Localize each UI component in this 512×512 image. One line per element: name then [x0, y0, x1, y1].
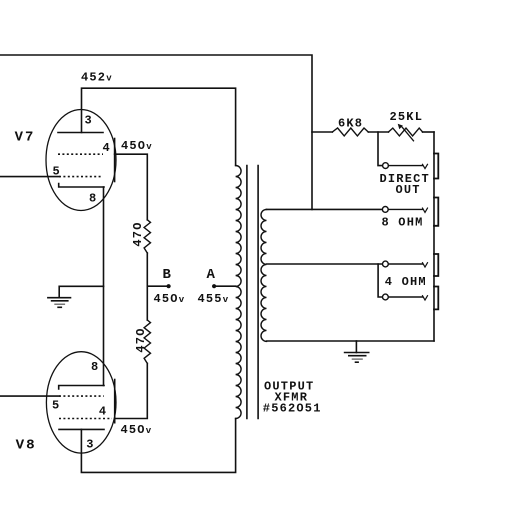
V8 screen grid pin 4 (dotted)	[59, 418, 112, 420]
label B	[163, 267, 173, 283]
svg-text:25KL: 25KL	[390, 110, 424, 124]
V8 cathode pin 8	[59, 386, 104, 390]
wire top supply rail	[0, 55, 312, 209]
wire pot to right rail	[423, 131, 434, 133]
V7 plate bar pin 3	[58, 132, 103, 134]
wire 4 OHM upper	[388, 263, 422, 265]
label 25KL	[390, 110, 424, 124]
wire lower 470 to V8 screen	[115, 363, 148, 418]
label V7	[15, 130, 36, 146]
V7 control grid pin 5 lead	[0, 176, 59, 178]
label OUTPUT XFMR #562051	[263, 380, 322, 416]
label 470 lower	[134, 327, 148, 352]
transformer T1 primary winding	[236, 166, 242, 419]
wire V7 screen 450v to resistor string	[115, 154, 148, 220]
ground right	[345, 353, 369, 356]
label A	[207, 267, 217, 283]
svg-text:V8: V8	[16, 438, 37, 454]
label 470 upper	[131, 221, 145, 246]
V7 pin 4 label	[103, 141, 111, 155]
wire 6K8 to pot junction	[368, 131, 388, 133]
label 455v node A	[198, 292, 229, 306]
svg-text:A: A	[207, 267, 217, 283]
tube V8 envelope	[46, 352, 116, 453]
wire cathode ground tap	[59, 286, 103, 297]
svg-text:47O: 47O	[131, 221, 145, 246]
tube V7 envelope	[46, 110, 116, 211]
resistor 470 upper	[144, 220, 150, 253]
svg-text:B: B	[163, 267, 173, 283]
wire right rail	[433, 132, 435, 341]
ground left	[48, 298, 71, 301]
V7 control grid (dotted)	[59, 176, 103, 178]
contact tick 8 OHM	[423, 208, 428, 212]
wire secondary bottom to right rail	[267, 340, 435, 342]
V7 pin 8 label	[89, 192, 97, 206]
jack sleeve bracket 8 OHM	[434, 198, 438, 226]
V8 pin 8 label	[91, 360, 99, 374]
contact tick DIRECT OUT	[423, 164, 428, 168]
wire 4 ohm tap	[267, 263, 383, 265]
svg-text:47O: 47O	[134, 327, 148, 352]
label DIRECT OUT	[380, 172, 430, 197]
label 450v V8	[121, 423, 152, 437]
wire ground tap transformer	[355, 341, 357, 353]
svg-text:3: 3	[85, 114, 93, 128]
label 452v	[81, 71, 112, 85]
potentiometer 25KL	[388, 128, 422, 136]
label 8 OHM	[382, 216, 424, 230]
label 4 OHM	[385, 275, 427, 289]
transformer core	[247, 166, 258, 419]
svg-text:45Ov: 45Ov	[154, 292, 185, 306]
wire 4 OHM lower	[388, 296, 422, 298]
svg-text:8: 8	[91, 360, 99, 374]
label 6K8	[338, 117, 363, 131]
V8 plate bar pin 3	[59, 428, 104, 430]
svg-text:4 OHM: 4 OHM	[385, 275, 427, 289]
wire 8 OHM	[388, 208, 422, 210]
svg-text:8: 8	[89, 192, 97, 206]
wire 8 ohm tap	[267, 208, 383, 210]
svg-text:45Ov: 45Ov	[121, 423, 152, 437]
V8 pin 3 label	[86, 438, 94, 452]
svg-text:5: 5	[52, 399, 60, 413]
label 450v node B	[154, 292, 185, 306]
label V8	[16, 438, 37, 454]
jack tip 4 OHM upper	[383, 261, 389, 267]
jack tip DIRECT OUT	[383, 163, 389, 169]
V7 pin 5 label	[53, 165, 61, 179]
node A dot	[212, 284, 216, 288]
contact tick 4 OHM upper	[423, 263, 428, 267]
svg-text:452v: 452v	[81, 71, 112, 85]
V7 beam plate bar	[114, 139, 116, 182]
node A stub	[214, 285, 236, 287]
wire DIRECT OUT	[389, 165, 423, 167]
jack sleeve bracket 4 OHM upper	[434, 254, 438, 276]
svg-text:OUT: OUT	[396, 183, 421, 197]
jack tip 8 OHM	[382, 207, 388, 213]
svg-text:V7: V7	[15, 130, 36, 146]
svg-text:3: 3	[86, 438, 94, 452]
wire 6K8 input	[312, 131, 332, 133]
V8 control grid pin 5 lead	[0, 395, 59, 397]
jack sleeve bracket DIRECT OUT	[434, 154, 438, 179]
V7 pin 3 label	[85, 114, 93, 128]
wire 452v net: V7 plate to transformer primary top	[82, 88, 236, 165]
svg-text:#562O51: #562O51	[263, 402, 322, 416]
V7 screen grid pin 4 (dotted)	[58, 153, 103, 155]
svg-text:4: 4	[103, 141, 111, 155]
wire 4 ohm jack link	[378, 264, 382, 297]
V7 cathode pin 8	[59, 184, 104, 188]
svg-text:5: 5	[53, 165, 61, 179]
wire between 470 resistors	[146, 253, 148, 320]
contact tick 4 OHM lower	[423, 296, 428, 300]
resistor 6K8	[332, 128, 368, 136]
V8 beam plate bar	[114, 380, 116, 423]
wire primary bottom to V8 plate	[81, 419, 235, 473]
V8 pin 4 label	[99, 405, 107, 419]
label 450v V7	[121, 139, 152, 153]
resistor 470 lower	[144, 320, 150, 363]
node B dot	[167, 284, 171, 288]
svg-text:455v: 455v	[198, 292, 229, 306]
svg-text:4: 4	[99, 405, 107, 419]
svg-text:6K8: 6K8	[338, 117, 363, 131]
svg-text:45Ov: 45Ov	[121, 139, 152, 153]
node B stub	[147, 285, 168, 287]
jack sleeve bracket 4 OHM lower	[434, 287, 438, 310]
transformer T1 secondary winding	[261, 209, 267, 341]
V8 pin 5 label	[52, 399, 60, 413]
wire V7 cathode to V8 cathode	[103, 187, 105, 386]
wire junction to DIRECT OUT jack	[378, 132, 383, 166]
V8 control grid (dotted)	[59, 395, 104, 397]
potentiometer wiper arrow	[401, 126, 413, 141]
jack tip 4 OHM lower	[383, 294, 389, 300]
svg-text:8 OHM: 8 OHM	[382, 216, 424, 230]
